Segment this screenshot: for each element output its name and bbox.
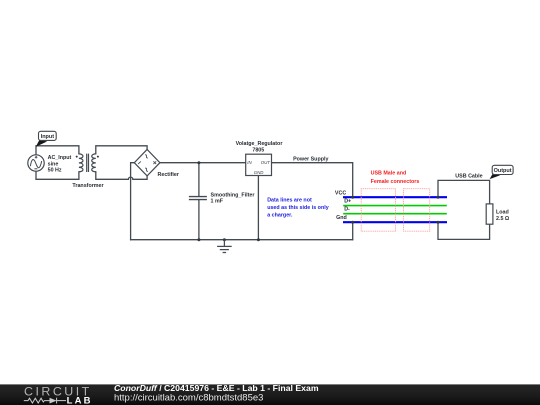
- svg-text:D-: D-: [344, 207, 350, 213]
- svg-text:used as this side is only: used as this side is only: [267, 205, 329, 211]
- label Volatge_Regulator 7805: [236, 141, 283, 154]
- wire regulator OUT to VCC drop: [272, 163, 353, 198]
- junction node regulator GND at rail: [257, 238, 260, 241]
- junction node VCC left: [351, 196, 354, 199]
- svg-text:7805: 7805: [252, 148, 264, 154]
- svg-text:Transformer: Transformer: [72, 183, 103, 189]
- logo resistor diode line: [24, 398, 66, 404]
- transformer T1: [79, 154, 96, 172]
- label AC_Input: [48, 155, 72, 174]
- svg-text:Power Supply: Power Supply: [293, 157, 328, 163]
- wire rectifier right corner to regulator IN: [160, 162, 246, 164]
- resistor load R1: [486, 204, 493, 224]
- svg-text:50 Hz: 50 Hz: [48, 168, 62, 174]
- svg-text:2.5 Ω: 2.5 Ω: [496, 216, 510, 222]
- wire transformer secondary bottom to rectifier bottom with hop: [96, 172, 147, 180]
- svg-text:Smoothing_Filter: Smoothing_Filter: [211, 192, 255, 198]
- wire AC source bottom to transformer primary: [36, 171, 79, 179]
- svg-text:OUT: OUT: [261, 160, 271, 165]
- wire AC source top to transformer primary: [36, 146, 79, 155]
- junction node Gnd right: [437, 221, 440, 224]
- svg-text:VCC: VCC: [335, 191, 346, 197]
- USB connector female dashed box: [361, 189, 395, 232]
- svg-text:D+: D+: [344, 199, 351, 205]
- svg-text:GND: GND: [254, 170, 265, 175]
- wire right connector VCC stub: [438, 180, 490, 204]
- junction node capacitor top: [197, 161, 200, 164]
- label Load 2.5 ohm: [496, 210, 510, 223]
- input flag: [36, 131, 57, 147]
- junction node VCC right: [437, 196, 440, 199]
- svg-text:a charger.: a charger.: [267, 212, 293, 218]
- net VCC blue line: [343, 196, 447, 198]
- svg-text:1 mF: 1 mF: [211, 199, 224, 205]
- svg-text:AC_Input: AC_Input: [48, 155, 72, 161]
- ground: [217, 238, 232, 252]
- wire right connector Gnd stub to load bottom: [438, 222, 490, 239]
- wire bottom rail: [131, 239, 353, 241]
- wire rectifier left corner down to bottom rail: [131, 163, 135, 240]
- junction node capacitor bottom: [197, 238, 200, 241]
- wire regulator GND down to bottom rail: [257, 176, 259, 240]
- transformer polarity dot secondary: [97, 156, 99, 158]
- AC source V1: [28, 155, 44, 171]
- svg-text:LAB: LAB: [67, 396, 93, 405]
- svg-text:Input: Input: [41, 134, 55, 140]
- net D- green line: [343, 213, 447, 215]
- wire left connector Gnd drop to bottom rail: [352, 222, 354, 240]
- op-amp U1 voltage regulator 7805 box: [246, 154, 272, 175]
- USB connector male dashed box: [404, 189, 430, 232]
- note data lines: [267, 198, 329, 219]
- svg-text:Data lines are not: Data lines are not: [267, 198, 312, 204]
- junction node Gnd left: [351, 221, 354, 224]
- svg-text:http://circuitlab.com/c8bmdtst: http://circuitlab.com/c8bmdtstd85e3: [114, 392, 263, 403]
- wire transformer secondary top to rectifier top: [96, 146, 147, 154]
- svg-text:Gnd: Gnd: [336, 215, 347, 221]
- svg-text:sine: sine: [48, 161, 59, 167]
- wire capacitor bottom branch: [198, 200, 200, 240]
- svg-text:Load: Load: [496, 210, 509, 216]
- label Smoothing_Filter: [211, 192, 255, 204]
- output flag: [490, 165, 514, 179]
- svg-text:USB Cable: USB Cable: [455, 174, 482, 180]
- capacitor C1 plates: [189, 197, 207, 200]
- label USB Male and Female connectors: [371, 171, 420, 185]
- net D+ green line: [343, 205, 447, 207]
- svg-text:Volatge_Regulator: Volatge_Regulator: [236, 141, 283, 147]
- svg-text:USB Male and: USB Male and: [371, 171, 407, 177]
- svg-text:Rectifier: Rectifier: [158, 172, 179, 178]
- wire capacitor top branch: [198, 163, 200, 196]
- net Gnd blue line: [343, 221, 447, 223]
- footer bar: [0, 384, 540, 405]
- svg-text:Output: Output: [494, 168, 512, 174]
- rectifier bridge: [134, 149, 160, 176]
- svg-text:Female connectors: Female connectors: [371, 179, 420, 185]
- transformer polarity dot primary: [76, 156, 78, 158]
